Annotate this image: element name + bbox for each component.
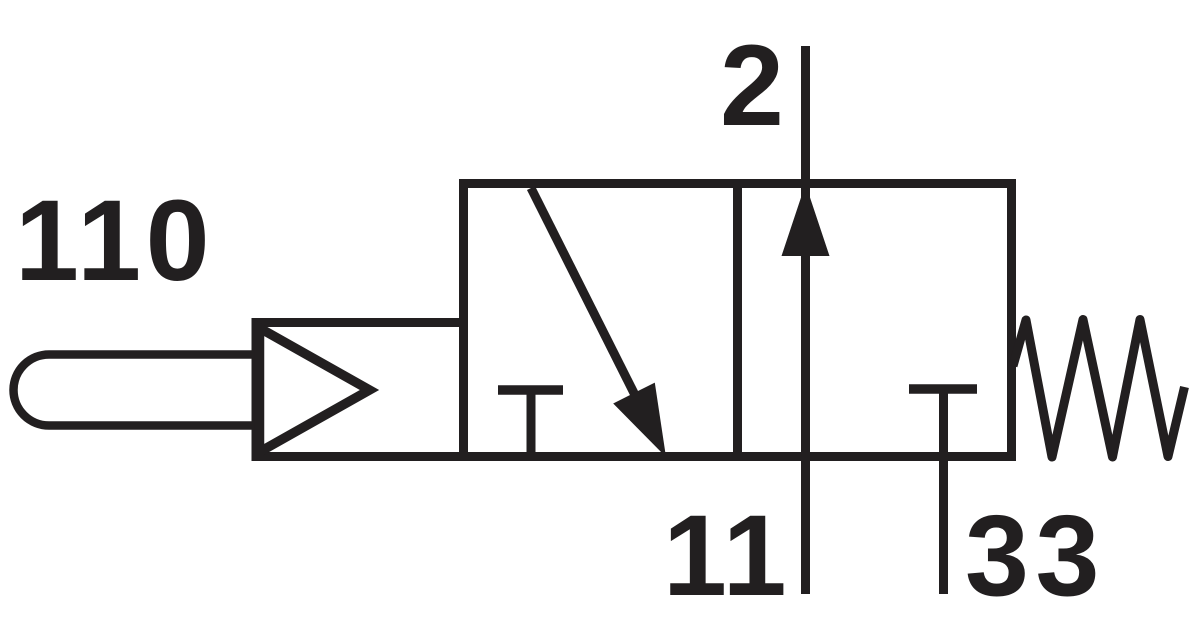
valve center divider — [733, 184, 742, 456]
blocked port T (right cell) — [909, 384, 977, 394]
svg-text:33: 33 — [965, 492, 1106, 620]
pilot triangle — [260, 328, 370, 452]
return spring — [1013, 320, 1185, 458]
diagonal arrowhead — [613, 383, 666, 457]
port 3 wire — [939, 456, 948, 594]
actuator plunger capsule — [14, 355, 257, 426]
flow path diagonal arrow (left cell) — [531, 188, 644, 413]
flow path 1 to 2 (right cell) — [801, 184, 810, 456]
svg-text:2: 2 — [720, 22, 784, 150]
pilot actuator box — [256, 323, 464, 457]
valve body — [464, 184, 1012, 457]
svg-text:11: 11 — [663, 492, 789, 620]
svg-text:110: 110 — [15, 177, 214, 305]
flow arrowhead up — [782, 184, 830, 256]
blocked port T (left cell) — [498, 385, 563, 395]
port 2 wire — [801, 46, 810, 184]
port 1 wire — [801, 456, 810, 594]
